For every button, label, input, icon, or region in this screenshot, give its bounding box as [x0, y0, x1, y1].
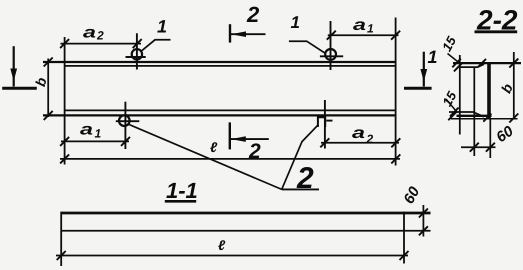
dimension a2 top-left: line: [61, 43, 142, 45]
section mark 2 bottom: arrowhead: [231, 136, 246, 142]
section 2-2: tick at web on bottom line: [483, 114, 491, 122]
section 2-2: 60 dim tick right: [486, 143, 495, 152]
dimension b left: extension top: [43, 61, 64, 63]
section mark 1 right: arrowhead: [420, 69, 427, 82]
panel plan: left end edge / extension: [64, 37, 66, 165]
svg-text:2: 2: [296, 162, 314, 195]
svg-text:1: 1: [367, 22, 374, 36]
section 2-2: middle vertical / extension: [473, 67, 475, 156]
loop TL circle: [132, 49, 142, 59]
dimension a2 bottom-right: tick right: [391, 138, 400, 147]
section 2-2: b dim tick bottom: [509, 114, 518, 123]
section mark 2 bottom: arrow shaft: [231, 138, 269, 140]
svg-text:a: a: [80, 122, 93, 139]
svg-text:a: a: [353, 17, 366, 34]
panel plan: right end edge / extension: [395, 18, 397, 166]
loop TR axis line: [330, 21, 332, 70]
section mark 2 top: bar: [229, 24, 231, 42]
loop TR crossbar: [320, 55, 343, 57]
dimension l plan: line: [60, 158, 400, 160]
leader poz.2: from loop BR: [282, 125, 319, 190]
dimension a1 bottom-left: tick right: [121, 137, 130, 146]
section mark 1 right: arrow shaft: [423, 52, 425, 87]
svg-text:ℓ: ℓ: [218, 237, 226, 253]
svg-text:2: 2: [366, 132, 374, 146]
svg-text:1: 1: [95, 127, 102, 141]
dimension a1 bottom-left: tick left: [60, 137, 69, 146]
dimension a2 top-left: tick left: [60, 39, 69, 48]
dimension a2 bottom-right: line: [321, 142, 399, 144]
panel plan: bottom outer edge: [43, 114, 397, 116]
leader poz.1 top-left: [141, 40, 171, 52]
section 1-1 view: left edge: [60, 212, 62, 266]
dimension l plan: tick left: [60, 154, 69, 163]
loop BR crossbar: [326, 120, 332, 122]
panel plan: bottom inner edge: [65, 109, 396, 111]
section 1-1: l dim tick right: [400, 251, 409, 260]
svg-text:ℓ: ℓ: [210, 139, 218, 155]
section 1-1: l dim line: [56, 255, 408, 257]
section 2-2: inner bottom line with chamfer: [449, 112, 484, 117]
loop BL circle: [119, 115, 130, 126]
svg-text:1-1: 1-1: [166, 178, 198, 203]
loop BR body: [318, 117, 325, 127]
section 2-2: web extension down: [489, 119, 491, 158]
leader poz.2: shelf: [282, 188, 319, 190]
section 2-2: 60 dim tick left: [470, 143, 479, 152]
section 2-2: 15 bottom leader: [446, 99, 457, 112]
section mark 2 top: arrowhead: [231, 31, 246, 37]
section 1-1: 60 dim line: [422, 205, 424, 237]
section 2-2: 15 top leader: [448, 54, 460, 64]
section 1-1: 60 dim tick bottom: [419, 226, 428, 235]
section 2-2: b dim line: [513, 52, 515, 119]
section 1-1: l dim tick left: [57, 251, 66, 260]
loop BR axis line: [324, 100, 326, 149]
dimension b left: tick bottom: [44, 111, 53, 120]
section mark 1 right: trace bar: [404, 87, 432, 90]
title 1-1 underline: [165, 200, 196, 203]
section 2-2: b dim tick top: [509, 59, 518, 68]
svg-text:2-2: 2-2: [476, 5, 518, 36]
section 2-2: 15 top tick b: [454, 63, 462, 72]
section 2-2: bottom face (thick): [457, 115, 492, 117]
dimension a1 top-right: tick right: [391, 31, 400, 40]
dimension a1 top-right: tick left: [327, 31, 336, 40]
section mark 2 bottom: bar: [229, 122, 231, 149]
section 2-2: top edge / extension line: [453, 62, 521, 64]
dimension b left: line: [47, 59, 49, 118]
svg-text:1: 1: [157, 17, 167, 37]
section 1-1 view: right edge: [403, 212, 405, 264]
loop BL crossbar: [116, 120, 140, 122]
section 1-1: 60 dim tick top: [419, 209, 428, 218]
panel plan: top inner edge: [65, 65, 396, 67]
section 2-2: tick at web on top line: [478, 59, 486, 67]
section 2-2: 15 top tick a: [452, 59, 461, 68]
section 2-2: web (thick): [487, 63, 491, 119]
svg-text:2: 2: [248, 140, 261, 163]
dimension a2 top-left: tick right: [133, 39, 142, 48]
loop TL axis line: [136, 33, 138, 69]
svg-text:1: 1: [428, 47, 438, 67]
section 2-2: inner top line with chamfer: [460, 64, 484, 67]
section 1-1 view: bottom line: [61, 230, 430, 232]
svg-text:2: 2: [96, 29, 104, 43]
loop TL crossbar: [126, 56, 146, 58]
dimension b left: tick top: [44, 58, 53, 67]
section mark 1 left: arrowhead: [10, 69, 17, 82]
dimension a2 bottom-right: tick left: [320, 138, 329, 147]
svg-text:1: 1: [291, 13, 300, 32]
section mark 1 left: trace bar: [2, 87, 37, 90]
section mark 2 top: arrow shaft: [231, 33, 266, 35]
svg-text:a: a: [83, 25, 96, 42]
section mark 1 left: arrow shaft: [13, 46, 15, 86]
dimension b left: extension bottom: [43, 114, 64, 116]
loop BL axis line: [124, 102, 126, 149]
section 2-2: 15 bottom tick a: [450, 108, 459, 117]
dimension l plan: tick right: [391, 154, 400, 163]
dimension a1 top-right: line: [328, 34, 399, 36]
section 2-2: bottom projection line: [451, 118, 518, 120]
panel plan: top outer edge: [43, 61, 397, 63]
section 2-2: left flange face: [459, 55, 461, 135]
svg-text:a: a: [352, 125, 365, 142]
section 2-2: 60 dim line: [461, 146, 496, 148]
section 1-1 view: top face (thick): [61, 212, 430, 215]
loop TR circle: [325, 49, 336, 60]
leader poz.1 top-right: [289, 41, 325, 53]
dimension a1 bottom-left: line: [61, 140, 129, 142]
svg-text:2: 2: [246, 2, 260, 27]
title 2-2 underline: [475, 30, 518, 33]
section 2-2: 15 bottom tick b: [448, 112, 456, 121]
leader poz.2: from loop BL: [129, 124, 282, 189]
